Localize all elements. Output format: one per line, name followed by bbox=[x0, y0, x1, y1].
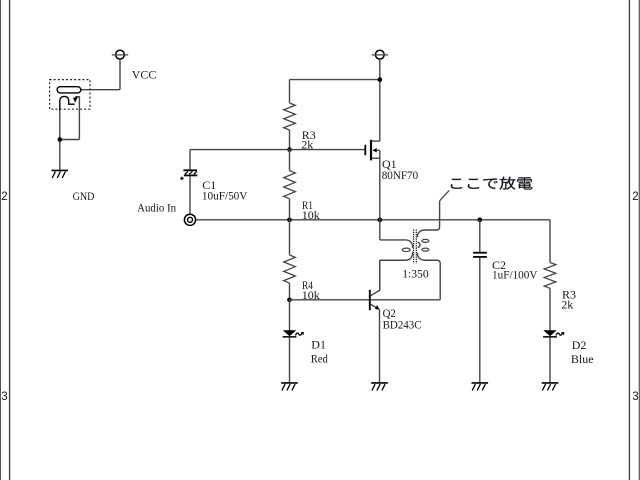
svg-text:2k: 2k bbox=[561, 298, 573, 312]
svg-text:3: 3 bbox=[632, 391, 638, 403]
svg-text:1uF/100V: 1uF/100V bbox=[492, 267, 538, 281]
svg-text:GND: GND bbox=[73, 189, 95, 203]
svg-text:2: 2 bbox=[1, 191, 7, 203]
svg-text:D2: D2 bbox=[572, 338, 587, 352]
svg-text:D1: D1 bbox=[311, 337, 326, 351]
svg-text:1:350: 1:350 bbox=[402, 266, 429, 280]
svg-text:10uF/50V: 10uF/50V bbox=[202, 188, 248, 202]
svg-text:VCC: VCC bbox=[132, 67, 157, 81]
svg-text:2: 2 bbox=[632, 191, 638, 203]
svg-text:Red: Red bbox=[311, 352, 328, 366]
svg-text:10k: 10k bbox=[302, 208, 320, 222]
svg-text:3: 3 bbox=[1, 391, 7, 403]
svg-text:Audio In: Audio In bbox=[137, 200, 176, 214]
svg-text:80NF70: 80NF70 bbox=[382, 168, 419, 182]
svg-text:BD243C: BD243C bbox=[383, 317, 422, 331]
svg-text:Blue: Blue bbox=[571, 352, 594, 366]
